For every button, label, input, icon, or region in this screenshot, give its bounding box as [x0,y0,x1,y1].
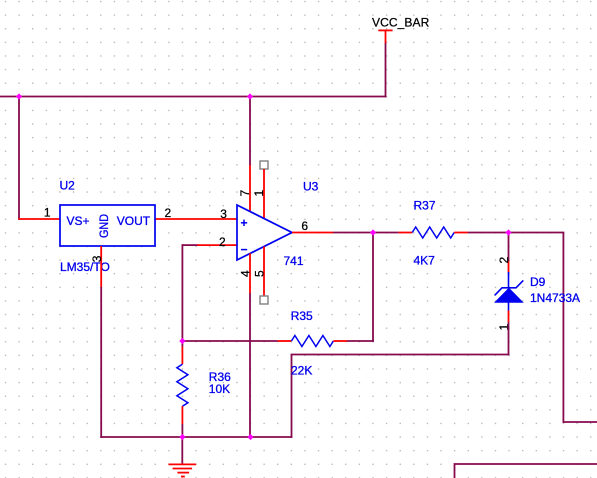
wire U3 pin 1 stub [263,169,265,219]
pin name VS+ [67,214,90,228]
node junction (250,96.5) [247,93,253,99]
svg-text:5: 5 [253,270,267,277]
svg-text:7: 7 [238,190,252,197]
label D9 [530,275,546,289]
wire left vertical [18,96,20,220]
wire U2 GND pin stub [100,246,102,287]
wire R35 right to corner up [347,233,374,342]
label 22K [291,364,312,378]
wire U3 pin 2 stub [197,244,237,246]
wire D9 anode stub [508,311,510,323]
wire R37 right stub [454,232,468,234]
wire R35 right stub [333,340,347,342]
wire U3 pin 2 branch [182,244,198,341]
svg-text:10K: 10K [209,382,230,396]
pin number 3 (U2 GND, rotated) [90,255,104,262]
resistor R35 [291,336,333,347]
node junction (251,437) [247,434,253,440]
wire top rail [0,96,386,98]
svg-text:22K: 22K [291,364,312,378]
label R36 [209,370,231,384]
wire U2 pin 2 to U3 pin 3 [155,218,237,220]
pin number 3 (U3) [220,207,227,221]
wire R36 top pin [181,347,183,365]
svg-text:VS+: VS+ [67,214,90,228]
svg-text:3: 3 [220,207,227,221]
svg-text:2: 2 [165,206,172,220]
label R35 [291,309,313,323]
wire bottom rail [100,436,292,438]
wire node to R37 [372,232,399,234]
wire U3 pin 7 stub [249,165,251,212]
wire ground stem [181,437,183,464]
svg-text:D9: D9 [530,275,546,289]
wire U3 pin 4 vertical [249,293,251,438]
wire U3 pin 4 stub [249,253,251,293]
wire R35 left stub [278,340,292,342]
pin number 7 (rotated) [238,190,252,197]
label 10K [209,382,230,396]
svg-text:VOUT: VOUT [117,214,151,228]
svg-text:2: 2 [497,257,511,264]
svg-text:VCC_BAR: VCC_BAR [372,16,430,30]
wire R36 bottom maroon [181,424,183,438]
wire U2 GND vertical [100,287,102,438]
label LM35/TO [60,260,110,274]
svg-text:1N4733A: 1N4733A [530,291,580,305]
wire R37 to D9 node [468,232,509,234]
IC U2 LM35 body [60,205,155,246]
wire U3 pin 6 stub [292,232,333,234]
svg-text:2: 2 [219,235,226,249]
wire anode horizontal [291,354,510,356]
svg-text:741: 741 [284,254,304,268]
wire D9 cathode stub [508,261,510,273]
wire R36 top stub maroon [181,341,183,347]
wire R35 node to left junction [182,340,277,342]
wire D9 cathode from node [508,233,510,262]
pin number 1 (D9, rotated) [497,324,511,331]
label VCC_BAR [372,16,430,30]
pin number 5 (rotated) [253,270,267,277]
terminal square U3 pin 1 [260,161,268,169]
power terminal VCC_BAR [378,30,392,44]
svg-text:4: 4 [239,270,253,277]
node junction (508.5,232.5) [505,229,511,235]
svg-text:3: 3 [90,255,104,262]
label 1N4733A [530,291,580,305]
svg-text:4K7: 4K7 [414,254,436,268]
wire right vertical [562,233,564,423]
pin name VOUT [117,214,151,228]
svg-text:U2: U2 [60,179,76,193]
pin number 2 (D9, rotated) [497,257,511,264]
node junction (373,232.5) [370,229,376,235]
label 741 [284,254,304,268]
wire bottom-right frame [455,464,597,478]
op-amp U3 741 [237,205,292,260]
pin number 1 (U2) [44,205,51,219]
wire R37 left stub [399,232,413,234]
svg-text:R37: R37 [414,199,436,213]
pin number 6 [301,219,308,233]
pin number 2 (U3) [219,235,226,249]
pin number 1 (U3 top, rotated) [252,190,266,197]
node junction (19,96.5) [16,93,22,99]
resistor R37 [412,227,454,238]
label 4K7 [414,254,436,268]
svg-text:U3: U3 [303,180,319,194]
wire anode vertical to bottom rail [291,355,293,438]
svg-text:GND: GND [97,214,111,238]
label R37 [414,199,436,213]
wire U2 pin 1 stub [18,218,60,220]
wire U3 pin 5 stub [263,247,265,297]
wire R36 bottom pin [181,406,183,424]
wire VCC drop [385,43,387,98]
svg-text:1: 1 [44,205,51,219]
wire right horizontal to edge [563,421,597,423]
zener diode D9 [495,272,524,311]
node junction (182.4,341) [179,338,185,344]
pin number 2 (U2) [165,206,172,220]
resistor R36 [177,364,188,406]
wire pin 6 to node [333,232,373,234]
label U2 [60,179,76,193]
svg-text:1: 1 [252,190,266,197]
svg-text:R35: R35 [291,309,313,323]
wire U3 pin 7 feed [249,96,251,165]
terminal square U3 pin 5 [260,296,268,304]
node junction (182.4,437) [179,434,185,440]
label U3 [303,180,319,194]
wire D9 anode down [508,322,510,355]
wire D9 node to right corner [509,232,565,234]
svg-text:6: 6 [301,219,308,233]
ground [169,464,197,476]
pin number 4 (rotated) [239,270,253,277]
pin name GND (rotated) [97,214,111,238]
